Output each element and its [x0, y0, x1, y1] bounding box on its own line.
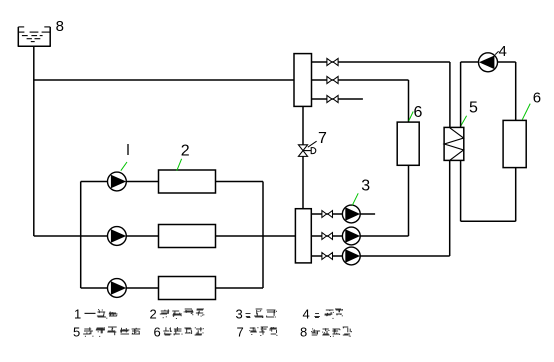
wire: right loop bottom: [461, 220, 516, 222]
valve V2 on output 2: [327, 76, 338, 83]
svg-text:5: 5: [469, 99, 478, 116]
svg-text:8: 8: [56, 18, 64, 35]
wire: riser to heat exchanger bottom left: [449, 160, 451, 256]
pump P3c (secondary pump): [342, 247, 360, 265]
pump P3b (secondary pump): [342, 227, 360, 245]
leader to label 7: [308, 141, 317, 147]
svg-text:3: 3: [236, 307, 243, 322]
pump P1 (primary pump, row 1): [108, 172, 127, 191]
svg-text:5: 5: [73, 325, 80, 340]
wire: output 2 drop to terminal box: [408, 80, 410, 122]
wire: output 1 drop to HX: [449, 62, 451, 127]
svg-text:4: 4: [499, 43, 507, 60]
wire: drop to terminal box 6 right: [515, 62, 517, 120]
svg-text:6: 6: [533, 89, 541, 106]
svg-text:2: 2: [150, 307, 157, 322]
wire: secondary row 1 outlet (open): [360, 213, 375, 215]
wire: box 6 right down pipe: [515, 168, 517, 222]
wire: header output 2: [312, 79, 409, 81]
leader to label 6 right: [522, 104, 530, 120]
wire: HX right riser: [460, 62, 462, 127]
legend row 2: [73, 325, 352, 340]
svg-text:3: 3: [361, 177, 370, 194]
pump P1b (primary pump, row 2): [108, 227, 127, 246]
leader to label 6 left: [409, 112, 413, 121]
leader to label 5: [460, 116, 466, 127]
svg-text:7: 7: [237, 325, 244, 340]
pump P4: [479, 53, 498, 72]
pump P3 (secondary pump): [342, 205, 360, 223]
svg-text:2: 2: [181, 143, 190, 160]
wire: riser to terminal box 6 left: [408, 165, 410, 236]
wire: primary right bus: [262, 182, 264, 289]
terminal device U6b (right): [503, 120, 526, 167]
leader to label 4: [495, 51, 498, 54]
terminal device U6 (left): [397, 122, 419, 165]
valve V3 on output 3: [327, 95, 338, 102]
valve V1 on output 1: [327, 58, 338, 65]
wire: HX bottom right drop: [460, 160, 462, 221]
wire: secondary row 2 outlet: [360, 235, 408, 237]
leader to label 2: [177, 159, 182, 171]
wire: pump 4 line left: [461, 61, 479, 63]
bypass valve V7 with actuator: [298, 145, 315, 157]
valve V4 secondary row 1: [322, 211, 333, 218]
svg-text:7: 7: [318, 130, 327, 147]
wire: secondary row 2 suction: [311, 235, 342, 237]
svg-text:1: 1: [74, 307, 81, 322]
wire: secondary row 1 suction: [311, 213, 342, 215]
legend row 1: [74, 307, 343, 322]
wire: branch row 2: [34, 235, 296, 237]
svg-text:6: 6: [414, 104, 423, 121]
plate heat exchanger HX5: [444, 127, 464, 160]
lower header manifold: [295, 209, 311, 263]
chiller unit U2c (row 3): [159, 277, 216, 300]
wire: secondary row 3 suction: [311, 255, 342, 257]
wire: primary left bus: [80, 182, 82, 289]
expansion tank T8: [18, 27, 51, 46]
valve V6 secondary row 3: [322, 253, 333, 260]
upper header manifold: [294, 54, 312, 107]
svg-text:8: 8: [300, 325, 307, 340]
pump P1c (primary pump, row 3): [108, 279, 127, 298]
wire: pump 4 line right: [497, 61, 515, 63]
wire: header output 3 (open end): [312, 98, 363, 100]
wire: valve 7 to lower header: [302, 156, 304, 208]
svg-text:6: 6: [154, 325, 161, 340]
valve V5 secondary row 2: [322, 233, 333, 240]
wire: header output 1: [312, 61, 450, 63]
label 1 (drawn as bar): [127, 144, 129, 155]
wire: tank line to upper header: [34, 79, 294, 81]
wire: branch row 1: [81, 181, 263, 183]
wire: branch row 3: [81, 287, 263, 289]
leader to label 1: [121, 162, 127, 171]
chiller unit U2 (row 1): [159, 170, 216, 193]
chiller unit U2b (row 2): [159, 225, 216, 248]
leader to label 3: [352, 193, 358, 205]
wire: secondary row 3 outlet: [360, 255, 450, 257]
wire: upper header down pipe: [302, 106, 304, 144]
svg-text:4: 4: [303, 307, 310, 322]
wire: tank drop pipe: [33, 46, 35, 236]
